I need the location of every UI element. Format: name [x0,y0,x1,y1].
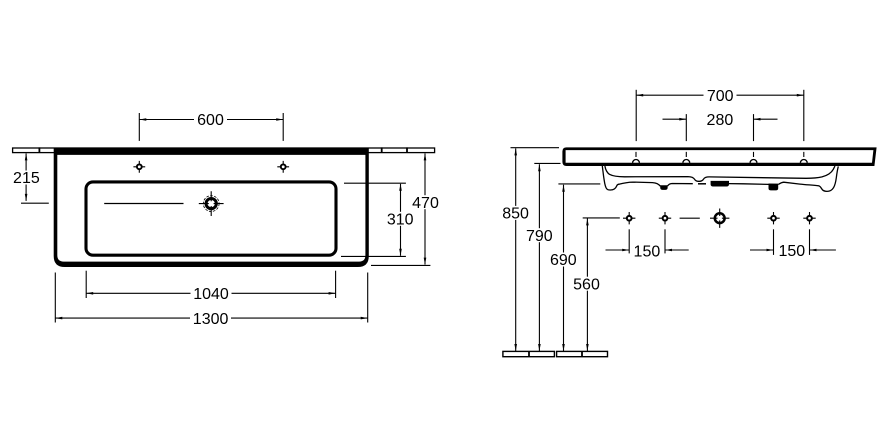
dim 850 [502,148,559,351]
bowl bottom line left [619,182,693,186]
svg-text:150: 150 [634,244,661,261]
hidden dashes below slab top [636,152,804,157]
dim 215 [13,153,49,203]
svg-text:700: 700 [707,88,734,105]
dim 690 [550,184,601,351]
dim 1300 [55,273,367,328]
dim 310 [341,183,415,256]
svg-text:280: 280 [707,112,734,129]
dim 280 [663,112,778,141]
svg-text:850: 850 [502,206,529,223]
tap hole bumps on slab (front view) [633,159,808,162]
wall hole 1 [623,212,635,224]
svg-text:600: 600 [197,112,224,129]
svg-text:790: 790 [526,228,553,245]
svg-text:690: 690 [550,252,577,269]
slab tick left tail [38,147,40,152]
svg-text:1040: 1040 [193,286,229,303]
back ledge slab (top view) [13,148,435,153]
svg-text:150: 150 [778,243,805,260]
svg-text:560: 560 [573,276,600,293]
dim 700 [636,88,804,141]
svg-text:1300: 1300 [193,311,229,328]
basin body outline (top view) [54,148,369,267]
floor line [503,351,608,356]
wall hole center (drain) [710,209,729,228]
dim 150 left [606,229,689,260]
basin slab (front view) [562,147,876,166]
dim 560 [573,218,601,351]
dim 600 [139,112,283,141]
tap hole left (top view) [133,161,145,173]
slab tick right tail 2 [406,147,408,152]
dim 150 right [750,229,836,260]
dim 790 [526,163,561,351]
dim 470 [371,153,439,265]
svg-text:470: 470 [412,195,439,212]
bowl profile right foot + outer drop [819,166,839,191]
drain waste bar [711,181,729,187]
drain hole (top view) [199,191,224,216]
wall hole centerline [583,217,700,219]
bowl profile inner contour [605,166,835,181]
slab tick right tail 1 [381,147,383,152]
shelf line inside bowl [104,203,183,205]
mounting notch stem [660,185,668,190]
fixing tab right [769,184,779,191]
svg-text:310: 310 [387,212,414,229]
bowl profile hidden dash (drain) [698,183,706,185]
bowl profile outer drop + left foot (front view) [602,166,619,190]
svg-text:215: 215 [13,170,40,187]
inner basin bowl rounded rect [86,182,336,255]
wall hole 3 [767,212,779,224]
wall hole 2 [659,212,671,224]
wall hole 4 [803,212,815,224]
bowl bottom line right of drain [729,182,819,186]
dim 1040 [86,271,335,303]
tap hole right (top view) [277,161,289,173]
